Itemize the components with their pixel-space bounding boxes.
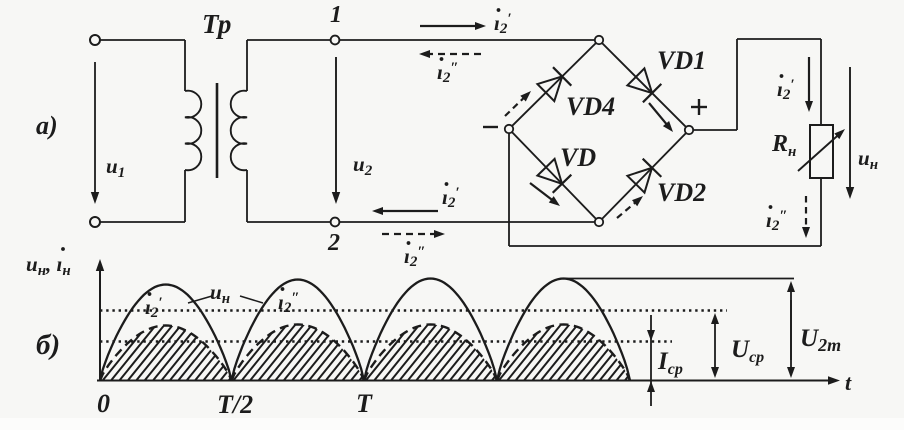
transformer primary winding (185, 91, 201, 170)
svg-text:Т: Т (356, 389, 373, 418)
label u2 (353, 152, 373, 179)
svg-text:t: t (845, 370, 852, 395)
label i2' (bottom) (442, 182, 460, 211)
transformer secondary winding (231, 91, 247, 171)
label minus (483, 126, 498, 128)
voltage curve arch 4 (497, 279, 630, 381)
dimension arrow Icp (647, 315, 655, 406)
label T/2 (217, 390, 253, 419)
wire (plus node to load top) (693, 39, 821, 130)
current arrow i2' (load) (805, 57, 813, 112)
U2m level line (563, 278, 794, 280)
current arrow i2'' (top wire, dashed) (419, 50, 481, 58)
wire (bridge side top-right) (599, 40, 689, 130)
wire (secondary bottom to node 2) (247, 170, 331, 222)
svg-text:2: 2 (327, 230, 340, 256)
wire (bridge side left-top) (509, 40, 599, 129)
svg-text:б): б) (36, 329, 60, 361)
hatched current area arch 1 (51, 322, 277, 383)
dotted line Ucp level (100, 309, 727, 311)
label a) (36, 111, 58, 140)
current arrow through VD2 (dashed) (617, 196, 643, 218)
current arrow through VD3 (solid) (530, 183, 560, 206)
node 2 (331, 218, 340, 227)
label u_n (curve callout) (188, 280, 263, 307)
label Ucp (731, 336, 764, 366)
label b) (36, 329, 60, 361)
wire (secondary top to node 1) (247, 40, 331, 91)
label T (356, 389, 373, 418)
node bridge bottom (595, 218, 603, 226)
label VD4 (566, 92, 615, 121)
node bridge top (595, 36, 603, 44)
label 0 (97, 389, 110, 418)
current curve arch 4 (dashed) (497, 325, 630, 381)
diode VD3 (537, 159, 571, 193)
label i2' (load) (777, 74, 795, 103)
label un (load) (858, 146, 878, 173)
current arrow through VD1 (solid) (649, 103, 673, 132)
svg-text:VD2: VD2 (657, 178, 706, 207)
label Rn (771, 131, 796, 160)
diode VD2 (627, 159, 661, 193)
current arrow i2' (top wire) (420, 22, 486, 30)
svg-text:VD: VD (560, 143, 596, 172)
label i2'' (top) (437, 57, 459, 86)
label 2 (327, 230, 340, 256)
node bridge left (minus) (505, 125, 513, 133)
terminal (input bottom) (90, 217, 100, 227)
node bridge right (plus) (685, 126, 693, 134)
label i2' (arch 1) (145, 292, 163, 321)
voltage arrow u1 (91, 62, 99, 204)
svg-text:а): а) (36, 111, 58, 140)
label U2m (800, 325, 841, 355)
diode VD4 (537, 67, 571, 101)
wire (node 1 to bridge top) (339, 39, 595, 41)
current arrow i2'' (bottom wire, dashed) (382, 230, 445, 238)
node 1 (331, 36, 340, 45)
wire (minus node to load bottom) (509, 133, 821, 246)
resistor Rn adjustment arrow (798, 129, 845, 171)
label Tp (transformer) (202, 9, 231, 39)
axis label un, in (26, 247, 71, 279)
voltage curve arch 3 (364, 279, 497, 381)
current curve arch 3 (dashed) (364, 325, 497, 381)
current arrow through VD4 (dashed) (505, 91, 531, 116)
voltage curve arch 2 (232, 280, 365, 381)
label Icp (657, 348, 683, 378)
label i2'' (arch 2) (278, 287, 300, 316)
svg-text:Тр: Тр (202, 9, 231, 39)
svg-text:1: 1 (330, 2, 342, 28)
resistor Rn (810, 125, 833, 178)
label VD3 (VD) (560, 143, 596, 172)
hatched current area arch 2 (181, 321, 408, 383)
wire (bridge side left-bottom) (509, 129, 599, 222)
label i2'' (bottom) (404, 241, 426, 270)
y axis (96, 259, 104, 381)
voltage arrow un (load) (846, 67, 854, 199)
wire (node 2 to bridge bottom) (339, 221, 595, 223)
voltage curve arch 1 (100, 285, 232, 381)
diode VD1 (627, 68, 661, 102)
dimension arrow Ucp (711, 313, 719, 378)
svg-text:Т/2: Т/2 (217, 390, 253, 419)
x axis (t) (97, 376, 840, 385)
hatched current area arch 4 (447, 321, 674, 383)
label plus (691, 99, 707, 115)
wire (top terminal to primary) (100, 40, 185, 91)
current arrow i2'' (load, dashed) (802, 196, 810, 238)
label 1 (330, 2, 342, 28)
svg-text:0: 0 (97, 389, 110, 418)
current curve arch 1 (dashed) (100, 326, 232, 381)
label VD1 (657, 46, 706, 75)
voltage arrow u2 (332, 57, 340, 204)
dimension arrow U2m (787, 281, 795, 378)
terminal (input top) (90, 35, 100, 45)
current curve arch 2 (dashed) (232, 325, 365, 381)
wire (primary to bottom terminal) (100, 170, 185, 222)
dotted line Icp level (100, 340, 672, 342)
label i2'' (load) (766, 205, 788, 234)
label VD2 (657, 178, 706, 207)
svg-text:VD4: VD4 (566, 92, 615, 121)
label i2' (top) (494, 8, 512, 37)
wire (bridge side bottom-right) (599, 130, 689, 222)
current arrow i2' (bottom wire) (372, 207, 438, 215)
transformer core (216, 83, 219, 178)
svg-text:VD1: VD1 (657, 46, 706, 75)
hatched current area arch 3 (314, 321, 541, 383)
label u1 (106, 154, 125, 181)
label t (845, 370, 852, 395)
